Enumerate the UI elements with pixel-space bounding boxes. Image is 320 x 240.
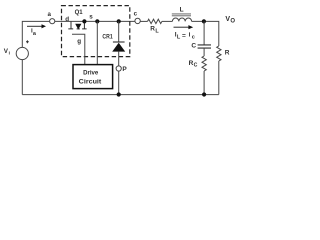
dashed box around power switch cell — [62, 6, 130, 57]
svg-text:c: c — [134, 11, 138, 18]
svg-text:CR1: CR1 — [102, 34, 113, 41]
transistor Q1 source stub and plate — [82, 21, 87, 29]
wire: source sense lead down to drive circuit — [96, 21, 98, 64]
wire: output node down to capacitor — [203, 21, 205, 45]
inductor L core lines — [172, 14, 191, 16]
wire: top rail from node a to node c — [55, 20, 135, 22]
drive circuit box — [73, 65, 113, 89]
inductor L coil — [172, 18, 191, 21]
voltage source VI — [16, 47, 28, 59]
wire: source bottom lead — [21, 60, 23, 95]
svg-text:i: i — [189, 32, 191, 39]
current arrow IL = ic — [174, 26, 189, 28]
wire: node c to resistor RL — [140, 20, 147, 22]
wire: R to bottom rail corner — [218, 61, 220, 95]
svg-text:R: R — [225, 50, 230, 57]
junction dot at source sense node — [95, 19, 99, 23]
svg-text:d: d — [65, 16, 69, 23]
junction dot CR1 anode on bottom rail — [117, 92, 121, 96]
capacitor C — [198, 45, 211, 48]
wire: RL to inductor — [162, 20, 173, 22]
svg-text:=: = — [182, 32, 186, 39]
junction dot at CR1 cathode on rail — [117, 19, 121, 23]
svg-text:a: a — [33, 31, 37, 37]
svg-text:L: L — [180, 7, 184, 14]
wire: node P down to bottom rail — [118, 71, 120, 94]
diode CR1 — [118, 21, 120, 42]
node P — [116, 66, 121, 71]
junction dot at output node on rail — [202, 19, 206, 23]
resistor R — [217, 46, 221, 61]
svg-text:P: P — [122, 66, 127, 73]
svg-text:I: I — [9, 50, 10, 55]
transistor Q1 middle plate — [77, 28, 80, 30]
junction dot at Q1 source on rail — [82, 19, 86, 23]
current arrow ia — [27, 25, 42, 27]
transistor Q1 body arrow — [75, 24, 81, 30]
svg-text:a: a — [48, 11, 52, 18]
wire: top rail left segment with corner down to source — [22, 21, 49, 47]
svg-text:O: O — [230, 18, 235, 24]
svg-text:c: c — [192, 35, 195, 41]
transistor Q1 drain stub and plate — [68, 21, 73, 29]
svg-text:s: s — [89, 13, 93, 20]
node a — [50, 19, 55, 24]
junction dot at bottom of Rc branch — [202, 92, 206, 96]
transistor Q1 gate bar and gate lead down to drive circuit — [72, 34, 85, 64]
svg-text:C: C — [194, 62, 198, 68]
wire: Rc to bottom rail — [203, 71, 205, 95]
resistor RL — [148, 19, 162, 23]
svg-text:L: L — [177, 34, 181, 40]
resistor Rc — [202, 56, 206, 71]
svg-text:g: g — [77, 38, 81, 45]
wire: bottom rail — [22, 94, 219, 96]
wire: inductor to output corner, down to load resistor R — [192, 21, 219, 46]
svg-text:Q1: Q1 — [75, 9, 83, 16]
svg-text:Circuit: Circuit — [79, 79, 102, 86]
svg-text:C: C — [191, 42, 196, 49]
node c — [135, 18, 140, 23]
svg-text:Drive: Drive — [83, 70, 98, 77]
svg-text:L: L — [155, 29, 159, 35]
wire: capacitor to resistor Rc — [203, 48, 205, 56]
